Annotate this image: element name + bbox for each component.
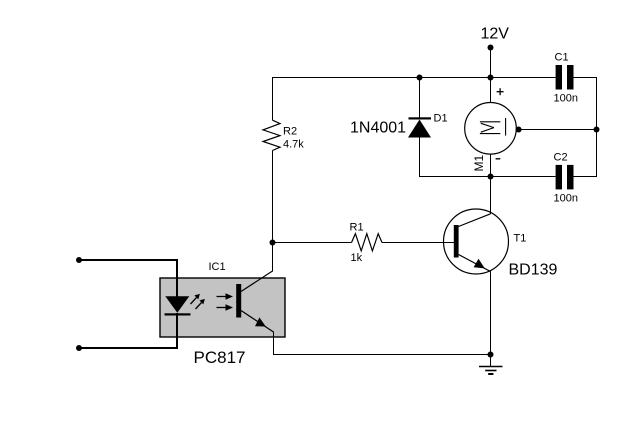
svg-text:C1: C1 [555, 52, 569, 64]
phototransistor light arrow 2 [217, 304, 234, 311]
opto emitter arrow [255, 317, 266, 326]
opto collector diagonal [241, 271, 273, 292]
opto emitter diagonal [241, 311, 274, 333]
svg-text:R1: R1 [350, 222, 364, 234]
wire opto emitter down [273, 332, 275, 356]
wire bottom motor rail to C2 left [419, 176, 556, 178]
transistor T1 emitter stroke [459, 255, 491, 272]
wire motor junction to transistor collector [490, 177, 492, 215]
wire 12V vertical [490, 48, 492, 78]
svg-text:D1: D1 [434, 113, 448, 125]
junction dot 12V/top rail [488, 75, 494, 81]
input terminal dot top [76, 257, 82, 263]
wire right rail vertical [596, 78, 598, 177]
phototransistor light arrow 1 [217, 293, 234, 300]
motor M glyph (rotated M) [480, 118, 506, 136]
transistor T1 emitter arrow [474, 259, 485, 269]
svg-text:C2: C2 [554, 152, 568, 164]
motor M1 body [465, 103, 517, 155]
wire input top [79, 260, 177, 297]
transistor T1 collector stroke [459, 214, 491, 227]
svg-text:1k: 1k [351, 252, 363, 264]
capacitor C2 [556, 165, 562, 190]
input terminal dot bottom [76, 345, 82, 351]
transistor T1 body circle [444, 209, 509, 274]
junction dot right rail / motor wire [594, 127, 600, 133]
wire base right segment [382, 242, 454, 244]
junction dot motor bottom [488, 174, 494, 180]
wire top rail horizontal [272, 77, 556, 79]
junction dot ground node [488, 352, 494, 358]
wire R2 bottom to base junction [272, 151, 274, 243]
capacitor C1 [556, 65, 562, 90]
wire base left segment [273, 242, 352, 244]
svg-text:BD139: BD139 [509, 262, 558, 279]
svg-text:T1: T1 [514, 233, 527, 245]
svg-text:PC817: PC817 [194, 348, 246, 367]
wire motor right to rail [519, 129, 597, 131]
motor right pin dot [516, 127, 522, 133]
LED anode triangle [165, 296, 189, 312]
svg-text:M1: M1 [472, 155, 486, 172]
svg-text:100n: 100n [554, 193, 578, 205]
svg-text:R2: R2 [283, 126, 297, 138]
wire motor bottom [490, 154, 492, 177]
svg-text:1N4001: 1N4001 [350, 120, 406, 137]
wire D1 top [419, 78, 421, 119]
svg-text:IC1: IC1 [209, 261, 226, 273]
transistor T1 base bar [454, 225, 459, 258]
motor minus sign [496, 158, 501, 160]
node 12V terminal dot [488, 45, 494, 51]
wire motor top [490, 78, 492, 103]
junction dot R2 / base / opto collector [270, 240, 276, 246]
LED light arrow 1 [191, 294, 200, 304]
wire D1 bottom [419, 137, 421, 177]
optocoupler IC1 body [160, 278, 285, 337]
wire LED cathode to input bottom [79, 313, 177, 348]
wire C2 right to rail [573, 176, 597, 178]
motor plus sign [497, 91, 504, 93]
wire opto collector vertical to junction [272, 243, 274, 272]
diode D1 cathode bar [409, 117, 432, 119]
LED cathode bar [165, 313, 191, 315]
LED light arrow 2 [196, 299, 205, 309]
wire C1 right to rail [573, 77, 597, 79]
wire top rail to R2 [272, 78, 274, 121]
svg-text:12V: 12V [481, 26, 510, 43]
svg-text:100n: 100n [554, 93, 578, 105]
ground [479, 355, 503, 375]
junction dot D1/top rail [417, 75, 423, 81]
resistor R1 [352, 234, 383, 251]
svg-text:4.7k: 4.7k [283, 139, 304, 151]
phototransistor base bar [236, 284, 241, 318]
wire opto emitter to ground node [273, 354, 491, 356]
wire emitter down to ground rail [490, 272, 492, 355]
diode D1 body [408, 120, 431, 138]
resistor R2 [263, 120, 280, 150]
